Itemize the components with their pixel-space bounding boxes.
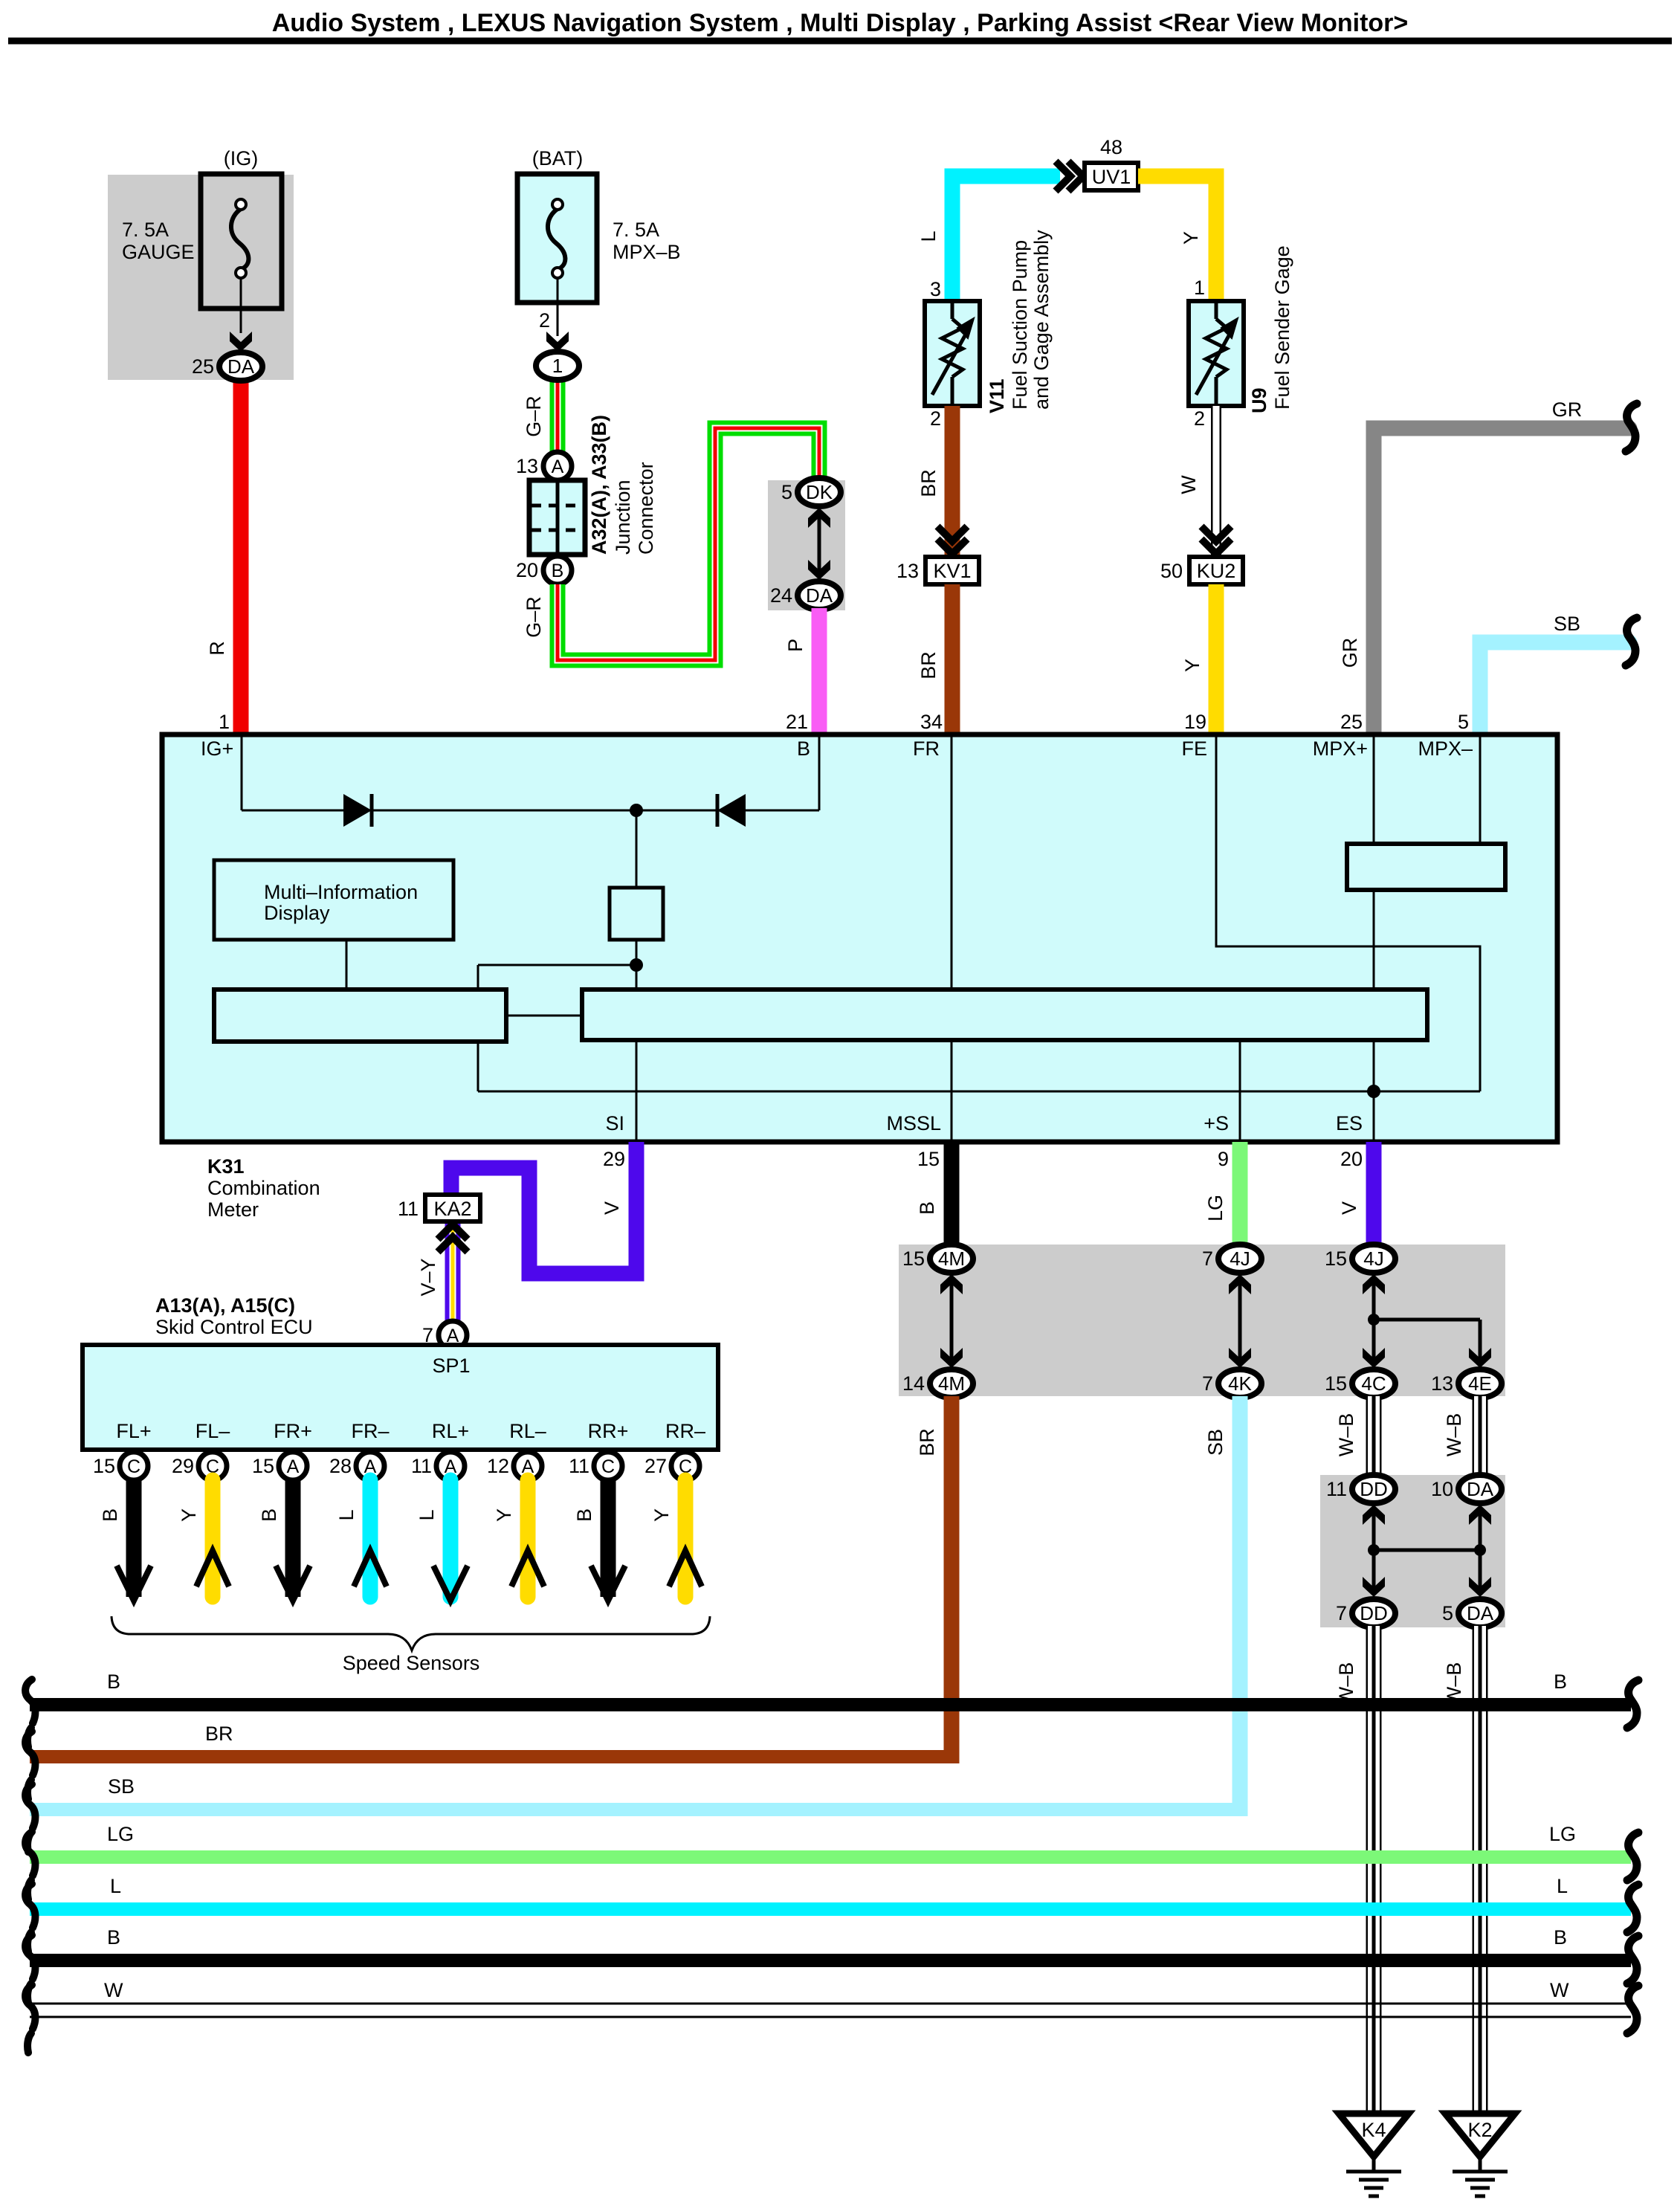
double chevron into UV1	[1056, 161, 1083, 191]
speed sensor wire B at FR+	[285, 1480, 301, 1597]
svg-text:K31: K31	[207, 1155, 245, 1178]
bus wire W at y=2704	[30, 2003, 1631, 2005]
component K31 Combination Meter box	[162, 735, 1557, 1142]
svg-text:MPX–: MPX–	[1418, 737, 1473, 760]
internal junction dot 2	[630, 958, 643, 972]
internal wire IG+ to diodes	[241, 737, 243, 810]
double arrow 4M-4M	[950, 1282, 954, 1362]
internal FR/MSSL vertical	[951, 737, 953, 1142]
svg-text:W: W	[104, 1979, 123, 2001]
wire GR (gray) to pin 25	[1374, 428, 1629, 736]
svg-text:Y: Y	[178, 1508, 200, 1522]
svg-text:12: 12	[487, 1455, 509, 1477]
svg-text:27: 27	[644, 1455, 667, 1477]
svg-text:LG: LG	[107, 1823, 134, 1845]
svg-text:7: 7	[1202, 1372, 1213, 1395]
svg-text:G–R: G–R	[523, 596, 545, 638]
svg-text:11: 11	[569, 1455, 589, 1477]
wire W-B 4E to DA	[1473, 1396, 1488, 1476]
svg-text:29: 29	[172, 1455, 194, 1477]
svg-text:DK: DK	[806, 481, 833, 503]
svg-text:DA: DA	[806, 584, 833, 607]
svg-text:and Gage Assembly: and Gage Assembly	[1030, 230, 1053, 410]
svg-text:W–B: W–B	[1335, 1413, 1357, 1457]
svg-text:B: B	[107, 1670, 120, 1693]
svg-text:4E: 4E	[1468, 1372, 1492, 1395]
connector DD (pin 11)	[1352, 1475, 1395, 1503]
svg-text:Y: Y	[1180, 231, 1202, 245]
svg-text:Meter: Meter	[207, 1198, 259, 1221]
diode D2	[717, 794, 746, 827]
svg-text:L: L	[335, 1509, 358, 1520]
svg-text:7. 5A: 7. 5A	[613, 219, 659, 241]
svg-text:B: B	[573, 1508, 595, 1522]
svg-text:RR–: RR–	[665, 1420, 705, 1442]
svg-text:L: L	[416, 1509, 438, 1520]
svg-text:15: 15	[1325, 1372, 1347, 1395]
speed sensor wire Y at RL–	[520, 1480, 536, 1597]
ground K2	[1445, 2114, 1515, 2196]
fuse block gray panel	[108, 175, 294, 380]
svg-text:Y: Y	[493, 1508, 515, 1522]
svg-text:2: 2	[1194, 407, 1205, 430]
arrows DD/DA with junction	[1372, 1513, 1376, 1591]
svg-text:(BAT): (BAT)	[532, 147, 584, 170]
svg-text:LG: LG	[1204, 1195, 1227, 1221]
wire LG +S to 4J	[1232, 1142, 1248, 1246]
svg-text:FR: FR	[913, 737, 940, 760]
internal MPX transceiver box	[1347, 844, 1505, 890]
wire V (violet) SI to KA2	[451, 1142, 636, 1274]
svg-text:BR: BR	[917, 651, 940, 679]
svg-text:25: 25	[1340, 711, 1363, 733]
svg-text:(IG): (IG)	[224, 147, 259, 170]
svg-text:Speed Sensors: Speed Sensors	[343, 1652, 480, 1674]
svg-text:FR–: FR–	[351, 1420, 389, 1442]
connector 4M (pin 15)	[930, 1245, 973, 1273]
svg-text:13: 13	[516, 455, 538, 477]
wire V ES to 4J	[1366, 1142, 1382, 1246]
svg-text:W–B: W–B	[1443, 1413, 1465, 1457]
svg-text:25: 25	[192, 355, 214, 378]
svg-text:A: A	[287, 1456, 300, 1477]
fuse 7.5A GAUGE box	[201, 174, 282, 309]
svg-text:C: C	[127, 1456, 140, 1477]
svg-text:Connector: Connector	[635, 462, 657, 555]
bus wire LG at y=2498	[30, 1850, 1631, 1864]
svg-text:R: R	[206, 641, 228, 656]
svg-text:V11: V11	[986, 378, 1008, 413]
svg-text:Y: Y	[650, 1508, 673, 1522]
svg-text:FL–: FL–	[196, 1420, 230, 1442]
connector DA (pin 5)	[1458, 1599, 1502, 1627]
svg-text:20: 20	[1340, 1148, 1363, 1170]
component V11 Fuel Suction Pump box	[925, 301, 980, 406]
internal bus bar right	[582, 990, 1427, 1040]
svg-text:B: B	[552, 561, 564, 581]
pin 13 circle A	[543, 452, 572, 480]
svg-text:7. 5A: 7. 5A	[122, 219, 169, 241]
svg-text:MPX+: MPX+	[1313, 737, 1368, 760]
svg-text:KV1: KV1	[933, 560, 971, 582]
variable resistor symbol V11	[942, 319, 963, 377]
svg-text:V–Y: V–Y	[417, 1258, 439, 1296]
bus wire B at y=2637	[30, 1954, 1631, 1967]
svg-text:1: 1	[552, 355, 563, 377]
connector DD (pin 7)	[1352, 1599, 1395, 1627]
svg-text:FL+: FL+	[116, 1420, 151, 1442]
connector KU2 (pin 50)	[1189, 557, 1243, 584]
break squiggle GR	[1626, 404, 1637, 451]
svg-text:FR+: FR+	[274, 1420, 312, 1442]
speed sensor wire Y at RR–	[678, 1480, 694, 1597]
svg-text:KU2: KU2	[1197, 560, 1236, 582]
internal junction dot	[630, 804, 643, 817]
svg-text:LG: LG	[1549, 1823, 1576, 1845]
connector 4J (pin 15)	[1352, 1245, 1395, 1273]
component U9 Fuel Sender Gage box	[1189, 301, 1244, 406]
svg-text:14: 14	[902, 1372, 925, 1395]
circle pin 7 A on SP1	[439, 1321, 467, 1349]
bus wire L at y=2568	[30, 1902, 1631, 1916]
double arrow 4J-4K	[1238, 1282, 1242, 1362]
svg-text:24: 24	[770, 584, 792, 607]
fuse 7.5A MPX-B box	[517, 174, 597, 303]
svg-text:KA2: KA2	[433, 1198, 471, 1220]
svg-text:G–R: G–R	[523, 396, 545, 437]
wire BR KV1 to combination meter pin 34	[945, 584, 960, 736]
connector KA2 (pin 11)	[425, 1195, 480, 1221]
double chevron into KU2	[1201, 526, 1231, 554]
svg-text:L: L	[1557, 1875, 1568, 1897]
svg-text:B: B	[916, 1201, 938, 1215]
svg-text:BR: BR	[917, 469, 940, 497]
speed sensor wire B at FL+	[126, 1480, 142, 1597]
svg-text:K2: K2	[1467, 2119, 1492, 2141]
svg-text:4C: 4C	[1361, 1372, 1386, 1395]
svg-text:13: 13	[1431, 1372, 1453, 1395]
svg-text:SI: SI	[605, 1112, 624, 1134]
double chevron into KV1	[937, 526, 967, 554]
svg-text:15: 15	[93, 1455, 115, 1477]
internal FE path	[1216, 737, 1480, 1091]
variable resistor symbol U9	[1206, 319, 1227, 377]
speed sensor wire Y at FL–	[205, 1480, 221, 1597]
wire Y (yellow) UV1 to U9 pin 1	[1138, 176, 1216, 301]
internal bus bar left	[214, 990, 506, 1042]
wire W-B 4C to DD	[1366, 1396, 1382, 1476]
connector DD/DA gray panel	[1320, 1475, 1505, 1627]
pin 20 circle B	[543, 556, 572, 584]
svg-text:5: 5	[781, 481, 792, 503]
svg-text:9: 9	[1218, 1148, 1229, 1170]
svg-text:SB: SB	[108, 1775, 135, 1798]
internal vertical SI line	[636, 810, 638, 1142]
wire W (white) U9 to KU2	[1211, 406, 1221, 558]
arrows 4J to 4C and 4E	[1372, 1282, 1376, 1362]
svg-text:15: 15	[1325, 1247, 1347, 1270]
svg-text:5: 5	[1458, 711, 1469, 733]
connector 1 oval	[536, 352, 579, 380]
svg-text:Combination: Combination	[207, 1177, 320, 1199]
svg-text:4J: 4J	[1363, 1247, 1383, 1270]
svg-text:Multi–Information: Multi–Information	[264, 881, 418, 903]
svg-text:RL+: RL+	[432, 1420, 469, 1442]
svg-text:DD: DD	[1360, 1478, 1388, 1500]
svg-text:48: 48	[1100, 136, 1122, 158]
connector 4E (pin 13)	[1458, 1369, 1502, 1398]
svg-text:4J: 4J	[1230, 1247, 1250, 1270]
svg-text:BR: BR	[205, 1723, 233, 1745]
header rule	[8, 38, 1672, 45]
svg-text:7: 7	[1202, 1247, 1213, 1270]
svg-text:BR: BR	[916, 1428, 938, 1456]
svg-text:W: W	[1550, 1979, 1569, 2001]
svg-text:2: 2	[539, 309, 550, 332]
svg-text:10: 10	[1431, 1478, 1453, 1500]
svg-text:A13(A), A15(C): A13(A), A15(C)	[155, 1294, 295, 1317]
svg-text:A: A	[552, 456, 564, 477]
connector 4J (pin 7)	[1218, 1245, 1261, 1273]
svg-text:MPX–B: MPX–B	[613, 241, 681, 263]
svg-text:DA: DA	[227, 355, 255, 378]
svg-text:28: 28	[329, 1455, 352, 1477]
svg-text:L: L	[917, 230, 940, 242]
svg-text:4K: 4K	[1228, 1372, 1252, 1395]
svg-text:SB: SB	[1204, 1429, 1227, 1456]
internal small box	[610, 888, 663, 940]
svg-text:Display: Display	[264, 902, 330, 924]
svg-text:B: B	[1554, 1926, 1567, 1949]
connector DA (pin 24)	[798, 581, 841, 610]
wire P (pink) DA to combination meter pin 21	[812, 608, 827, 736]
svg-text:1: 1	[1194, 277, 1205, 299]
svg-text:V: V	[1338, 1201, 1360, 1215]
svg-text:SB: SB	[1554, 613, 1580, 635]
internal +S vertical	[1239, 1040, 1241, 1142]
arrow into DA	[230, 332, 252, 352]
wire B MSSL to 4M	[944, 1142, 960, 1246]
svg-text:DD: DD	[1360, 1602, 1388, 1624]
svg-text:11: 11	[398, 1198, 419, 1220]
wire W-B DD to ground K4	[1366, 1626, 1382, 2114]
bus wire SB at y=2434	[30, 1803, 1247, 1816]
svg-text:L: L	[110, 1875, 121, 1897]
connector DK/DA gray panel	[768, 480, 845, 610]
svg-text:Fuel Sender Gage: Fuel Sender Gage	[1271, 245, 1293, 410]
speed sensor wire L at RL+	[443, 1480, 459, 1597]
wire SB to pin 5	[1480, 642, 1629, 736]
svg-text:B: B	[797, 737, 810, 760]
svg-text:FE: FE	[1181, 737, 1207, 760]
svg-text:15: 15	[917, 1148, 940, 1170]
bus wire BR at y=2363	[30, 1750, 959, 1763]
svg-text:11: 11	[1326, 1478, 1347, 1500]
svg-text:V: V	[601, 1201, 623, 1215]
svg-text:B: B	[1554, 1670, 1567, 1693]
component Skid Control ECU box	[83, 1345, 718, 1450]
wire BR V11 to KV1	[945, 406, 960, 558]
svg-text:MSSL: MSSL	[886, 1112, 941, 1134]
svg-text:GR: GR	[1339, 638, 1361, 668]
svg-text:K4: K4	[1361, 2119, 1386, 2141]
svg-text:B: B	[99, 1508, 121, 1522]
speed sensor wire L at FR–	[363, 1480, 378, 1597]
svg-text:A32(A), A33(B): A32(A), A33(B)	[588, 415, 610, 555]
double chevron into KA2	[438, 1224, 468, 1252]
svg-text:C: C	[601, 1456, 615, 1477]
wire W-B DA to ground K2	[1473, 1626, 1488, 2114]
connector 4C (pin 15)	[1352, 1369, 1395, 1398]
svg-text:7: 7	[1336, 1602, 1347, 1624]
bar connector line	[506, 1015, 582, 1017]
wire G-R junction connector to DK	[558, 428, 819, 660]
break squiggle SB	[1626, 618, 1637, 665]
pin number 25 / connector DA	[219, 352, 262, 381]
wire L (cyan) V11 to UV1	[952, 176, 1060, 301]
svg-text:UV1: UV1	[1092, 166, 1131, 188]
wire V-Y KA2 to skid ECU pin 7	[445, 1224, 461, 1323]
diode D1	[343, 794, 372, 827]
svg-text:Skid Control ECU: Skid Control ECU	[155, 1316, 313, 1338]
internal long horizontal to ES	[478, 1091, 1480, 1093]
svg-text:2: 2	[930, 407, 941, 430]
svg-text:W: W	[1177, 475, 1200, 494]
connector 4M/4J/4K/4C/4E gray panel	[899, 1245, 1505, 1396]
svg-text:P: P	[784, 639, 807, 652]
svg-text:Fuel Suction Pump: Fuel Suction Pump	[1009, 240, 1031, 410]
wire SB 4K to bus	[1232, 1396, 1248, 1816]
wire BR 4M to bus	[944, 1396, 960, 1763]
svg-text:DA: DA	[1467, 1602, 1494, 1624]
line MID to bar	[346, 940, 348, 990]
svg-text:29: 29	[603, 1148, 625, 1170]
Multi-Information Display box	[214, 860, 453, 940]
svg-text:SP1: SP1	[432, 1355, 470, 1377]
svg-text:3: 3	[930, 278, 941, 300]
svg-text:19: 19	[1184, 711, 1206, 733]
svg-text:15: 15	[252, 1455, 274, 1477]
svg-text:4M: 4M	[938, 1247, 965, 1270]
svg-text:GAUGE: GAUGE	[122, 241, 195, 263]
internal MPX+/ES vertical	[1373, 737, 1375, 1091]
bus wire B at y=2293	[30, 1698, 1631, 1711]
double arrow DK-DA	[818, 516, 821, 574]
svg-text:Audio System , LEXUS Navigatio: Audio System , LEXUS Navigation System ,…	[272, 9, 1409, 37]
ES junction dot	[1367, 1085, 1380, 1098]
svg-text:U9: U9	[1248, 387, 1270, 413]
svg-text:Junction: Junction	[612, 480, 634, 555]
svg-text:GR: GR	[1552, 398, 1583, 421]
svg-text:ES: ES	[1336, 1112, 1363, 1134]
speed sensors brace	[112, 1616, 710, 1650]
connector UV1 (pin 48)	[1085, 163, 1138, 190]
internal MPX- vertical	[1479, 737, 1482, 848]
connector DK (pin 5)	[798, 478, 841, 506]
svg-text:B: B	[258, 1508, 280, 1522]
svg-text:DA: DA	[1467, 1478, 1494, 1500]
ground K4	[1339, 2114, 1409, 2196]
connector KV1 (pin 13)	[925, 557, 979, 584]
svg-text:11: 11	[411, 1455, 432, 1477]
connector 4M (pin 14)	[930, 1369, 973, 1398]
svg-text:5: 5	[1442, 1602, 1453, 1624]
svg-text:+S: +S	[1204, 1112, 1229, 1134]
connector 4K (pin 7)	[1218, 1369, 1261, 1398]
svg-text:RL–: RL–	[509, 1420, 546, 1442]
arrow into connector 1	[546, 332, 569, 352]
connector DA (pin 10)	[1458, 1475, 1502, 1503]
wire R (red) IG to combination meter pin 1	[233, 372, 249, 736]
svg-text:RR+: RR+	[588, 1420, 629, 1442]
svg-text:4M: 4M	[938, 1372, 965, 1395]
svg-text:21: 21	[786, 711, 808, 733]
svg-text:1: 1	[219, 711, 230, 733]
svg-text:Y: Y	[1181, 659, 1204, 672]
svg-text:B: B	[107, 1926, 120, 1949]
svg-text:34: 34	[920, 711, 943, 733]
svg-text:13: 13	[896, 560, 919, 582]
wire Y KU2 to combination meter pin 19	[1209, 584, 1224, 736]
svg-text:IG+: IG+	[201, 737, 233, 760]
wire G-R fuse to junction connector	[550, 378, 566, 453]
svg-text:20: 20	[516, 559, 538, 581]
svg-text:15: 15	[902, 1247, 925, 1270]
internal line dot2 left and down	[478, 964, 636, 966]
speed sensor wire B at RR+	[601, 1480, 616, 1597]
junction connector A32(A) A33(B) box	[529, 480, 585, 555]
svg-text:50: 50	[1160, 560, 1183, 582]
